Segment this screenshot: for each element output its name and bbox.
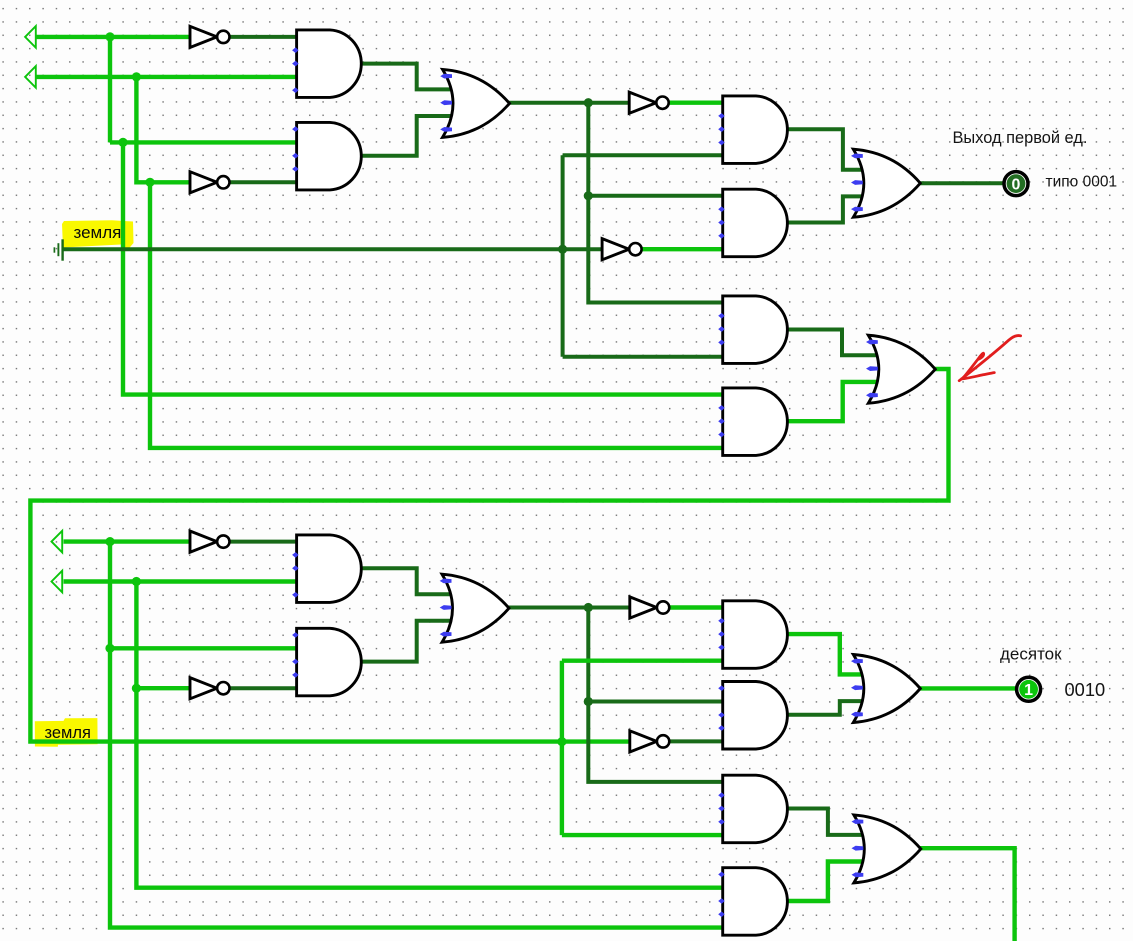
pin: unconnected input of G9 bbox=[851, 154, 863, 159]
pin: unconnected input of G12 bbox=[292, 672, 299, 678]
or-gate G9 bbox=[853, 149, 920, 217]
pin: unconnected input of G15 bbox=[718, 618, 725, 624]
node: net label highlight (земля, top) bbox=[62, 220, 134, 249]
label: типо 0001 bbox=[1046, 174, 1118, 191]
node C2 lower junction bbox=[584, 697, 593, 706]
pin: unconnected input of G15 bbox=[718, 645, 725, 651]
and-gate G18 bbox=[723, 868, 788, 936]
wire: OR G9 out to output pin P1 bbox=[920, 181, 1005, 185]
wire: feedback branch to AND G15 input bbox=[562, 659, 724, 663]
svg-text:десяток: десяток bbox=[1000, 645, 1062, 664]
pin: unconnected input of G11 bbox=[292, 565, 299, 571]
wire: AND G16 out to OR G19 bbox=[788, 701, 864, 715]
svg-text:земля: земля bbox=[45, 724, 91, 742]
wire: OR G10 output feedback loop bbox=[30, 369, 948, 742]
wire: node C2 vertical drop bbox=[588, 608, 724, 782]
wire: feedback branch to AND G17 input bbox=[562, 833, 724, 837]
feedback rail junction bbox=[557, 737, 566, 746]
wire: inverter U4 out to AND G6 bbox=[642, 247, 724, 251]
node A1 junction bbox=[105, 32, 114, 41]
wire: AND G17 out to OR G20 bbox=[788, 809, 864, 835]
node A1 lower junction bbox=[118, 138, 127, 147]
inverter U1 bbox=[190, 26, 230, 47]
pin: unconnected input of G17 bbox=[718, 792, 725, 798]
node: net label highlight (земля, bottom) bbox=[35, 718, 98, 747]
and-gate G17 bbox=[723, 775, 788, 843]
wire: AND G15 out to OR G19 bbox=[788, 634, 864, 674]
label: десяток bbox=[1000, 645, 1062, 664]
pin: unconnected input of G13 bbox=[440, 632, 452, 637]
inverter U4 bbox=[602, 239, 642, 260]
pin: unconnected input of G2 bbox=[292, 153, 299, 159]
wire: node B2 vertical drop to AND G18 bbox=[136, 582, 724, 888]
svg-text:0010: 0010 bbox=[1065, 679, 1106, 700]
pin: unconnected input of G10 bbox=[866, 366, 878, 371]
node C2 junction bbox=[584, 603, 593, 612]
node C1 lower junction bbox=[584, 191, 593, 200]
wire: input B1 to AND G1 input bbox=[36, 75, 298, 79]
input pin A1 bbox=[25, 26, 36, 48]
pin: unconnected input of G8 bbox=[718, 432, 725, 438]
pin: unconnected input of G5 bbox=[718, 113, 725, 119]
and-gate G11 bbox=[297, 535, 362, 603]
pin: unconnected input of G7 bbox=[718, 313, 725, 319]
wire: ground branch to AND G7 input bbox=[563, 355, 724, 359]
pin: unconnected input of G19 bbox=[851, 685, 863, 690]
pin: unconnected input of G19 bbox=[851, 659, 863, 664]
pin: unconnected input of G8 bbox=[718, 405, 725, 411]
or-gate G20 bbox=[854, 815, 921, 883]
pin: unconnected input of G16 bbox=[718, 685, 725, 691]
wire: node C1 branch to AND G6 bbox=[588, 194, 724, 198]
and-gate G1 bbox=[297, 30, 362, 98]
pin: unconnected input of G18 bbox=[718, 898, 725, 904]
label: Выход первой ед. bbox=[953, 129, 1088, 147]
wire: node C1 vertical drop bbox=[588, 103, 724, 303]
node A2 junction bbox=[105, 537, 114, 546]
wire: inverter U2 out to AND G2 bbox=[230, 180, 299, 184]
pin: unconnected input of G15 bbox=[718, 631, 725, 637]
pin: unconnected input of G3 bbox=[440, 74, 452, 79]
wire: OR G19 out to output pin P2 bbox=[920, 686, 1018, 690]
inverter U7 bbox=[630, 597, 670, 618]
input pin A2 bbox=[52, 531, 63, 553]
pin: unconnected input of G12 bbox=[292, 659, 299, 665]
pin: unconnected input of G2 bbox=[292, 126, 299, 132]
pin: unconnected input of G9 bbox=[851, 180, 863, 185]
pin: unconnected input of G1 bbox=[292, 61, 299, 67]
node label: земля (top) bbox=[74, 223, 122, 242]
inverter U8 bbox=[630, 731, 670, 752]
wire: AND G12 out to OR G13 bbox=[363, 621, 453, 662]
wire: AND G6 out to OR G9 bbox=[788, 196, 864, 222]
inverter U6 bbox=[190, 678, 230, 699]
annotation: red arrow pointing at or-gate G10 bbox=[959, 335, 1020, 380]
wire: ground branch to AND G4 input bbox=[563, 153, 724, 157]
wire: AND G7 out to OR G10 bbox=[788, 330, 879, 356]
node B2 junction bbox=[132, 577, 141, 586]
wire: node B1 long drop to AND G8 input bbox=[150, 182, 724, 448]
node C1 junction bbox=[584, 98, 593, 107]
wire: AND G1 out to OR G3 bbox=[363, 64, 453, 90]
wire: node A2 branch to AND G12 bbox=[110, 646, 298, 650]
wire: AND G5 out to OR G9 bbox=[788, 129, 864, 170]
wire: AND G8 out to OR G10 bbox=[788, 382, 879, 421]
pin: unconnected input of G20 bbox=[852, 819, 864, 824]
pin: unconnected input of G6 bbox=[718, 220, 725, 226]
pin: unconnected input of G1 bbox=[292, 47, 299, 53]
wire: node C2 branch to AND G16 bbox=[588, 700, 724, 704]
label: 0010 bbox=[1065, 679, 1106, 700]
or-gate G3 bbox=[443, 69, 510, 137]
pin: unconnected input of G17 bbox=[718, 819, 725, 825]
and-gate G2 bbox=[297, 122, 362, 189]
wire: AND G18 out to OR G20 bbox=[788, 862, 864, 902]
pin: unconnected input of G8 bbox=[718, 418, 725, 424]
wire: OR G3 out to inverter U3 bbox=[509, 101, 630, 105]
pin: unconnected input of G11 bbox=[292, 592, 299, 598]
pin: unconnected input of G3 bbox=[440, 100, 452, 105]
wire: feedback rail branch vertical bbox=[560, 661, 564, 835]
pin: unconnected input of G10 bbox=[866, 340, 878, 345]
wire: inverter U1 out to AND G1 bbox=[230, 35, 299, 39]
and-gate G7 bbox=[723, 296, 788, 364]
pin: unconnected input of G12 bbox=[292, 632, 299, 638]
node B1 lower junction bbox=[145, 178, 154, 187]
pin: unconnected input of G16 bbox=[718, 725, 725, 731]
pin: unconnected input of G13 bbox=[440, 579, 452, 584]
and-gate G6 bbox=[723, 189, 788, 257]
or-gate G19 bbox=[853, 655, 920, 723]
inverter U2 bbox=[190, 172, 230, 193]
wire: inverter U5 out to AND G11 bbox=[230, 540, 299, 544]
wire: node A2 vertical drop to AND G18 bbox=[110, 542, 724, 928]
wire: node B2 branch to inverter U6 bbox=[136, 686, 190, 690]
pin: unconnected input of G16 bbox=[718, 712, 725, 718]
pin: unconnected input of G1 bbox=[292, 87, 299, 93]
wire: inverter U3 out to AND G5 bbox=[669, 100, 724, 104]
input pin B1 bbox=[25, 66, 36, 88]
or-gate G13 bbox=[442, 574, 509, 642]
input pin B2 bbox=[52, 571, 63, 593]
wire: OR G20 output to bottom edge bbox=[920, 848, 1015, 941]
pin: unconnected input of G20 bbox=[852, 846, 864, 851]
wire: ground branch vertical bbox=[561, 155, 565, 357]
pin: unconnected input of G11 bbox=[292, 552, 299, 558]
pin: unconnected input of G20 bbox=[852, 872, 864, 877]
ground bbox=[54, 239, 62, 260]
wire: AND G2 out to OR G3 bbox=[363, 116, 453, 156]
wire: ground rail top bbox=[63, 247, 603, 251]
svg-text:типо 0001: типо 0001 bbox=[1046, 174, 1118, 191]
node B2 lower junction bbox=[132, 684, 141, 693]
and-gate G12 bbox=[297, 628, 362, 696]
and-gate G5 bbox=[723, 96, 788, 163]
wire: input A2 to inverter U5 bbox=[64, 539, 191, 543]
pin: unconnected input of G18 bbox=[718, 912, 725, 918]
inverter U5 bbox=[190, 531, 230, 552]
pin: unconnected input of G3 bbox=[440, 127, 452, 132]
pin: unconnected input of G5 bbox=[718, 140, 725, 146]
pin: unconnected input of G19 bbox=[851, 712, 863, 717]
pin: unconnected input of G5 bbox=[718, 126, 725, 132]
wire: input B2 to AND G11 bbox=[64, 579, 299, 583]
pin: unconnected input of G7 bbox=[718, 326, 725, 332]
wire: node A1 long drop to AND G8 input bbox=[123, 142, 724, 394]
wire: node B1 vertical drop bbox=[136, 77, 190, 182]
wire: inverter U6 out to AND G12 bbox=[230, 686, 299, 690]
node A2 lower junction bbox=[105, 644, 114, 653]
inverter U3 bbox=[629, 92, 669, 113]
pin: unconnected input of G17 bbox=[718, 806, 725, 812]
pin: unconnected input of G7 bbox=[718, 340, 725, 346]
output pin P2 (value 1) bbox=[1017, 677, 1041, 701]
and-gate G16 bbox=[723, 682, 788, 750]
svg-text:земля: земля bbox=[74, 223, 122, 242]
svg-text:0: 0 bbox=[1012, 176, 1021, 193]
and-gate G8 bbox=[723, 388, 788, 456]
output pin P1 (value 0) bbox=[1004, 172, 1028, 196]
pin: unconnected input of G6 bbox=[718, 206, 725, 212]
wire: inverter U8 out to AND G16 bbox=[670, 739, 724, 743]
wire: node A1 vertical drop bbox=[108, 37, 112, 142]
and-gate G15 bbox=[723, 601, 788, 669]
wire: node A1 to AND G2 input bbox=[110, 140, 298, 144]
ground rail junction bbox=[558, 245, 567, 254]
svg-text:Выход первой ед.: Выход первой ед. bbox=[953, 129, 1088, 147]
or-gate G10 bbox=[868, 335, 935, 403]
pin: unconnected input of G10 bbox=[866, 393, 878, 398]
pin: unconnected input of G18 bbox=[718, 872, 725, 878]
wire: OR G13 out to inverter U7 bbox=[508, 606, 630, 610]
wire: AND G11 out to OR G13 bbox=[363, 568, 453, 594]
pin: unconnected input of G2 bbox=[292, 166, 299, 172]
node B1 junction bbox=[132, 72, 141, 81]
pin: unconnected input of G13 bbox=[440, 605, 452, 610]
pin: unconnected input of G9 bbox=[851, 207, 863, 212]
pin: unconnected input of G6 bbox=[718, 233, 725, 239]
svg-text:1: 1 bbox=[1024, 682, 1033, 699]
wire: inverter U7 out to AND G15 bbox=[670, 605, 724, 609]
wire: input A1 to inverter U1 bbox=[36, 35, 190, 39]
node label: земля (bottom) bbox=[45, 724, 91, 742]
